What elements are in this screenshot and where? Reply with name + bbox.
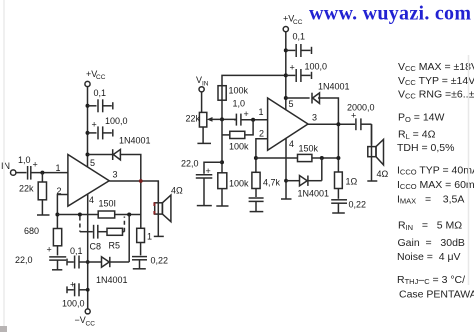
svg-text:100,0: 100,0	[105, 116, 128, 126]
input terminal IN	[1, 161, 16, 175]
spec Vcc max	[398, 61, 474, 73]
svg-text:+: +	[47, 245, 52, 255]
svg-text:1: 1	[259, 107, 264, 117]
spec TDH	[397, 142, 454, 154]
wire 22k to ground	[41, 200, 43, 215]
wire 22,0 to ground	[203, 178, 205, 206]
diode 1N4001 lower right	[286, 158, 329, 199]
wire pin2 leg	[57, 195, 68, 229]
wire 1ohm to 0,22 right	[337, 189, 339, 199]
ground speaker right	[367, 180, 377, 182]
node rail/22,0 branch	[220, 160, 224, 164]
wire feedback row	[57, 214, 140, 216]
svg-text:5: 5	[90, 158, 95, 168]
spec Case	[399, 289, 474, 301]
resistor R5 snubber	[107, 228, 123, 250]
capacitor 100,0 lower-left bypass (electrolytic)	[62, 280, 88, 309]
wire output row right amp	[308, 123, 355, 125]
resistor 150k feedback	[298, 144, 319, 162]
svg-text:150k: 150k	[299, 144, 319, 154]
wire feedback row right amp	[256, 157, 339, 159]
svg-text:1N4001: 1N4001	[119, 136, 151, 146]
svg-text:680: 680	[24, 226, 39, 236]
svg-text:Gain = 30dB: Gain = 30dB	[398, 237, 465, 249]
pin 2 label	[57, 186, 62, 196]
resistor 4,7k	[252, 172, 281, 188]
svg-text:IN: IN	[202, 81, 209, 88]
svg-text:1N4001: 1N4001	[298, 189, 330, 199]
wire diode row right amp	[286, 97, 310, 99]
resistor 680	[24, 226, 62, 246]
svg-text:TDH = 0,5%: TDH = 0,5%	[397, 142, 454, 154]
svg-text:1: 1	[56, 163, 61, 173]
svg-text:4: 4	[289, 139, 294, 149]
ground input	[37, 214, 50, 216]
wire diode row left	[88, 154, 113, 156]
svg-text:R5: R5	[109, 241, 121, 251]
spec Po	[398, 112, 445, 125]
speaker right 4ohm	[368, 139, 389, 179]
node output/coupling	[336, 122, 340, 126]
wire speaker to ground	[157, 181, 159, 236]
svg-text:+: +	[92, 120, 97, 130]
svg-text:Noise = 4 μV: Noise = 4 μV	[397, 251, 461, 263]
svg-text:1N4001: 1N4001	[96, 275, 128, 285]
capacitor 100,0 decoupling top-left (electrolytic)	[88, 116, 128, 139]
svg-text:2000,0: 2000,0	[347, 103, 375, 113]
resistor 100k upper bias	[218, 86, 249, 101]
resistor 150I feedback	[98, 199, 116, 219]
svg-text:0,22: 0,22	[349, 200, 367, 210]
svg-text:22,0: 22,0	[181, 159, 199, 169]
wire snubber dashed right	[123, 217, 125, 232]
ground zobel right	[332, 212, 345, 214]
wire 680 to 22,0	[57, 246, 59, 256]
diode 1N4001 upper right	[312, 82, 350, 104]
ground speaker left	[154, 235, 164, 237]
wire 0,22 to ground right	[337, 203, 339, 213]
svg-text:www. wuyazi. com: www. wuyazi. com	[309, 3, 471, 25]
node pin2/feedback row	[55, 213, 59, 217]
node feedback/diode branch	[127, 213, 131, 217]
node pin2/feedback right	[254, 156, 258, 160]
speaker left 4ohm	[154, 186, 183, 222]
op-amp U1	[68, 155, 109, 207]
wire 100k lower to ground	[221, 189, 223, 206]
spec Noise	[397, 251, 461, 263]
wire diode branch vertical	[128, 215, 130, 263]
pin 4 label right	[289, 139, 294, 149]
resistor 100k mid bias	[229, 131, 249, 151]
spec Rth	[397, 274, 465, 286]
svg-text:4: 4	[89, 195, 94, 205]
svg-text:1,0: 1,0	[18, 155, 31, 165]
capacitor 22,0 feedback (electrolytic)	[15, 245, 66, 266]
svg-text:4Ω: 4Ω	[377, 169, 389, 179]
svg-text:+: +	[244, 109, 249, 119]
svg-text:CC: CC	[293, 19, 303, 26]
capacitor C8 snubber	[80, 225, 107, 252]
node Vcc/C100	[86, 131, 90, 135]
wire +Vcc rail right	[285, 32, 287, 111]
diode 1N4001 lower-left	[88, 257, 130, 285]
wire bias branch	[245, 120, 253, 135]
wire snubber dashed left	[79, 217, 81, 232]
spec RL	[398, 129, 436, 142]
wire 100k mid to rail	[222, 134, 230, 136]
pin 4 label	[89, 195, 94, 205]
svg-text:+: +	[33, 160, 38, 170]
node output/zobel	[139, 179, 143, 183]
node Vcc/0,1 right	[284, 48, 288, 52]
spec Icco max	[397, 179, 474, 191]
svg-text:0,1: 0,1	[94, 88, 107, 98]
capacitor 0,1 decoupling right	[286, 32, 312, 58]
node wiper/cap row	[220, 117, 224, 121]
diode 1N4001 upper-left	[113, 136, 151, 161]
node pin1/bias	[251, 118, 255, 122]
resistor 100k lower bias	[218, 173, 249, 189]
wire IN to C1	[16, 172, 27, 174]
capacitor 1,0 input right (electrolytic)	[233, 99, 249, 126]
svg-text:C8: C8	[90, 242, 102, 252]
svg-text:100,0: 100,0	[305, 62, 328, 72]
svg-text:−V: −V	[75, 315, 86, 325]
node Vcc/diode row right	[284, 96, 288, 100]
svg-text:100k: 100k	[229, 179, 249, 189]
svg-text:100,0: 100,0	[62, 299, 85, 309]
svg-text:3: 3	[113, 170, 118, 180]
svg-text:RL = 4Ω: RL = 4Ω	[398, 129, 436, 142]
svg-text:4,7k: 4,7k	[263, 178, 281, 188]
svg-text:2: 2	[259, 129, 264, 139]
svg-text:CC: CC	[96, 74, 106, 81]
wire pin4 vertical to -Vcc	[87, 194, 89, 309]
ground pot	[197, 142, 211, 144]
svg-text:22k: 22k	[186, 114, 201, 124]
banner www.wuyazi.com	[309, 3, 471, 25]
node feedback/output corner right	[336, 156, 340, 160]
-Vcc terminal	[75, 309, 96, 328]
svg-text:3: 3	[312, 113, 317, 123]
wire top rail to 100k	[222, 75, 286, 119]
resistor 22k input	[19, 182, 47, 200]
capacitor 2000,0 output (electrolytic)	[347, 103, 375, 131]
ground 4,7k leg	[250, 211, 264, 213]
node pin4/bypass row	[86, 260, 90, 264]
pin 1 label right	[259, 107, 264, 117]
pin 3 label right	[312, 113, 317, 123]
wire cap to pin1	[241, 119, 268, 121]
capacitor 0,1 decoupling top-left	[88, 88, 113, 112]
wire C1 to pin1	[31, 172, 68, 174]
wire diode to output drop	[120, 155, 141, 229]
spec Rin	[398, 220, 462, 233]
pin 5 label	[90, 158, 95, 168]
node Vcc/diode row	[86, 153, 90, 157]
svg-text:+: +	[70, 280, 75, 290]
capacitor 22,0 right (electrolytic)	[181, 159, 212, 179]
spec Vcc rng	[398, 89, 474, 101]
wire pot to ground	[202, 127, 204, 143]
wire pin2 leg right	[256, 139, 268, 173]
svg-text:100k: 100k	[229, 142, 249, 152]
svg-text:0,1: 0,1	[70, 246, 83, 256]
wire cap to ground	[255, 201, 257, 211]
wire 0,22 to ground	[139, 260, 141, 269]
svg-text:+: +	[290, 63, 295, 73]
ground 100k lower	[216, 205, 228, 207]
node pin4/diode row lower	[284, 179, 288, 183]
spec Imax	[397, 194, 464, 206]
op-amp U2	[268, 98, 308, 150]
wire 22,0 to ground	[57, 260, 59, 270]
wire diode to output vertical	[318, 98, 338, 172]
capacitor 100,0 decoupling right (electrolytic)	[286, 62, 327, 83]
svg-text:0,1: 0,1	[293, 32, 306, 42]
node feedback/snubber	[78, 213, 82, 217]
svg-text:1Ω: 1Ω	[346, 177, 358, 187]
svg-text:1: 1	[147, 232, 152, 242]
capacitor 0,1 lower-left bypass	[67, 246, 88, 269]
wire node to 22k	[41, 173, 43, 182]
pin 2 label right	[259, 129, 264, 139]
svg-text:4Ω: 4Ω	[171, 186, 183, 196]
node input junction	[40, 171, 44, 175]
svg-text:22,0: 22,0	[15, 255, 33, 265]
svg-text:IN: IN	[1, 161, 10, 171]
ground pin4	[281, 198, 292, 200]
+Vcc terminal right	[283, 14, 303, 32]
svg-text:PO = 14W: PO = 14W	[398, 112, 445, 125]
ground zobel left	[133, 268, 146, 270]
capacitor 0,22 zobel right	[331, 200, 366, 210]
ground 22,0 right	[197, 205, 212, 207]
pin 3 label	[113, 170, 118, 180]
pin 1 label	[56, 163, 61, 173]
svg-text:1N4001: 1N4001	[318, 82, 350, 92]
capacitor series 4,7k leg	[249, 198, 264, 201]
ground 22,0	[52, 269, 62, 271]
wire speaker right to ground	[371, 124, 373, 181]
resistor 1 ohm zobel left	[137, 228, 152, 242]
wire rail vertical mid	[221, 119, 223, 172]
wire Vin to pot	[201, 92, 203, 113]
svg-text:1,0: 1,0	[233, 99, 246, 109]
spec Icco typ	[397, 165, 474, 177]
wire pin4 to ground	[285, 138, 287, 199]
potentiometer 22k	[186, 112, 237, 127]
spec Vcc typ	[398, 75, 474, 87]
wire 1ohm to 0,22	[140, 243, 142, 256]
capacitor 1,0 input (electrolytic)	[18, 155, 38, 180]
node pin4/100,0 row	[86, 288, 90, 292]
svg-text:22k: 22k	[19, 184, 34, 194]
svg-text:150I: 150I	[99, 199, 117, 209]
svg-text:CC: CC	[86, 321, 96, 328]
svg-text:100k: 100k	[229, 86, 249, 96]
pin 5 label right	[289, 99, 294, 109]
wire 22,0 branch	[204, 162, 222, 174]
svg-text:+: +	[206, 166, 211, 176]
wire coupling to speaker	[371, 124, 373, 144]
wire output row left amp	[109, 181, 158, 201]
capacitor 0,22 zobel left	[132, 256, 168, 266]
node Vcc/C0.1	[86, 104, 90, 108]
spec Gain	[398, 237, 465, 249]
resistor 1 ohm zobel right	[335, 172, 358, 189]
wire +Vcc rail to pin 5	[87, 87, 89, 167]
+Vcc terminal left	[85, 69, 106, 87]
svg-text:0,22: 0,22	[151, 256, 169, 266]
wire 4,7k to cap	[255, 189, 257, 198]
svg-text:Case PENTAWA: Case PENTAWA	[399, 289, 474, 301]
node Vcc/100,0 right	[284, 73, 288, 77]
node feedback/diode branch right	[320, 156, 324, 160]
input terminal Vin	[196, 75, 209, 92]
svg-text:5: 5	[289, 99, 294, 109]
